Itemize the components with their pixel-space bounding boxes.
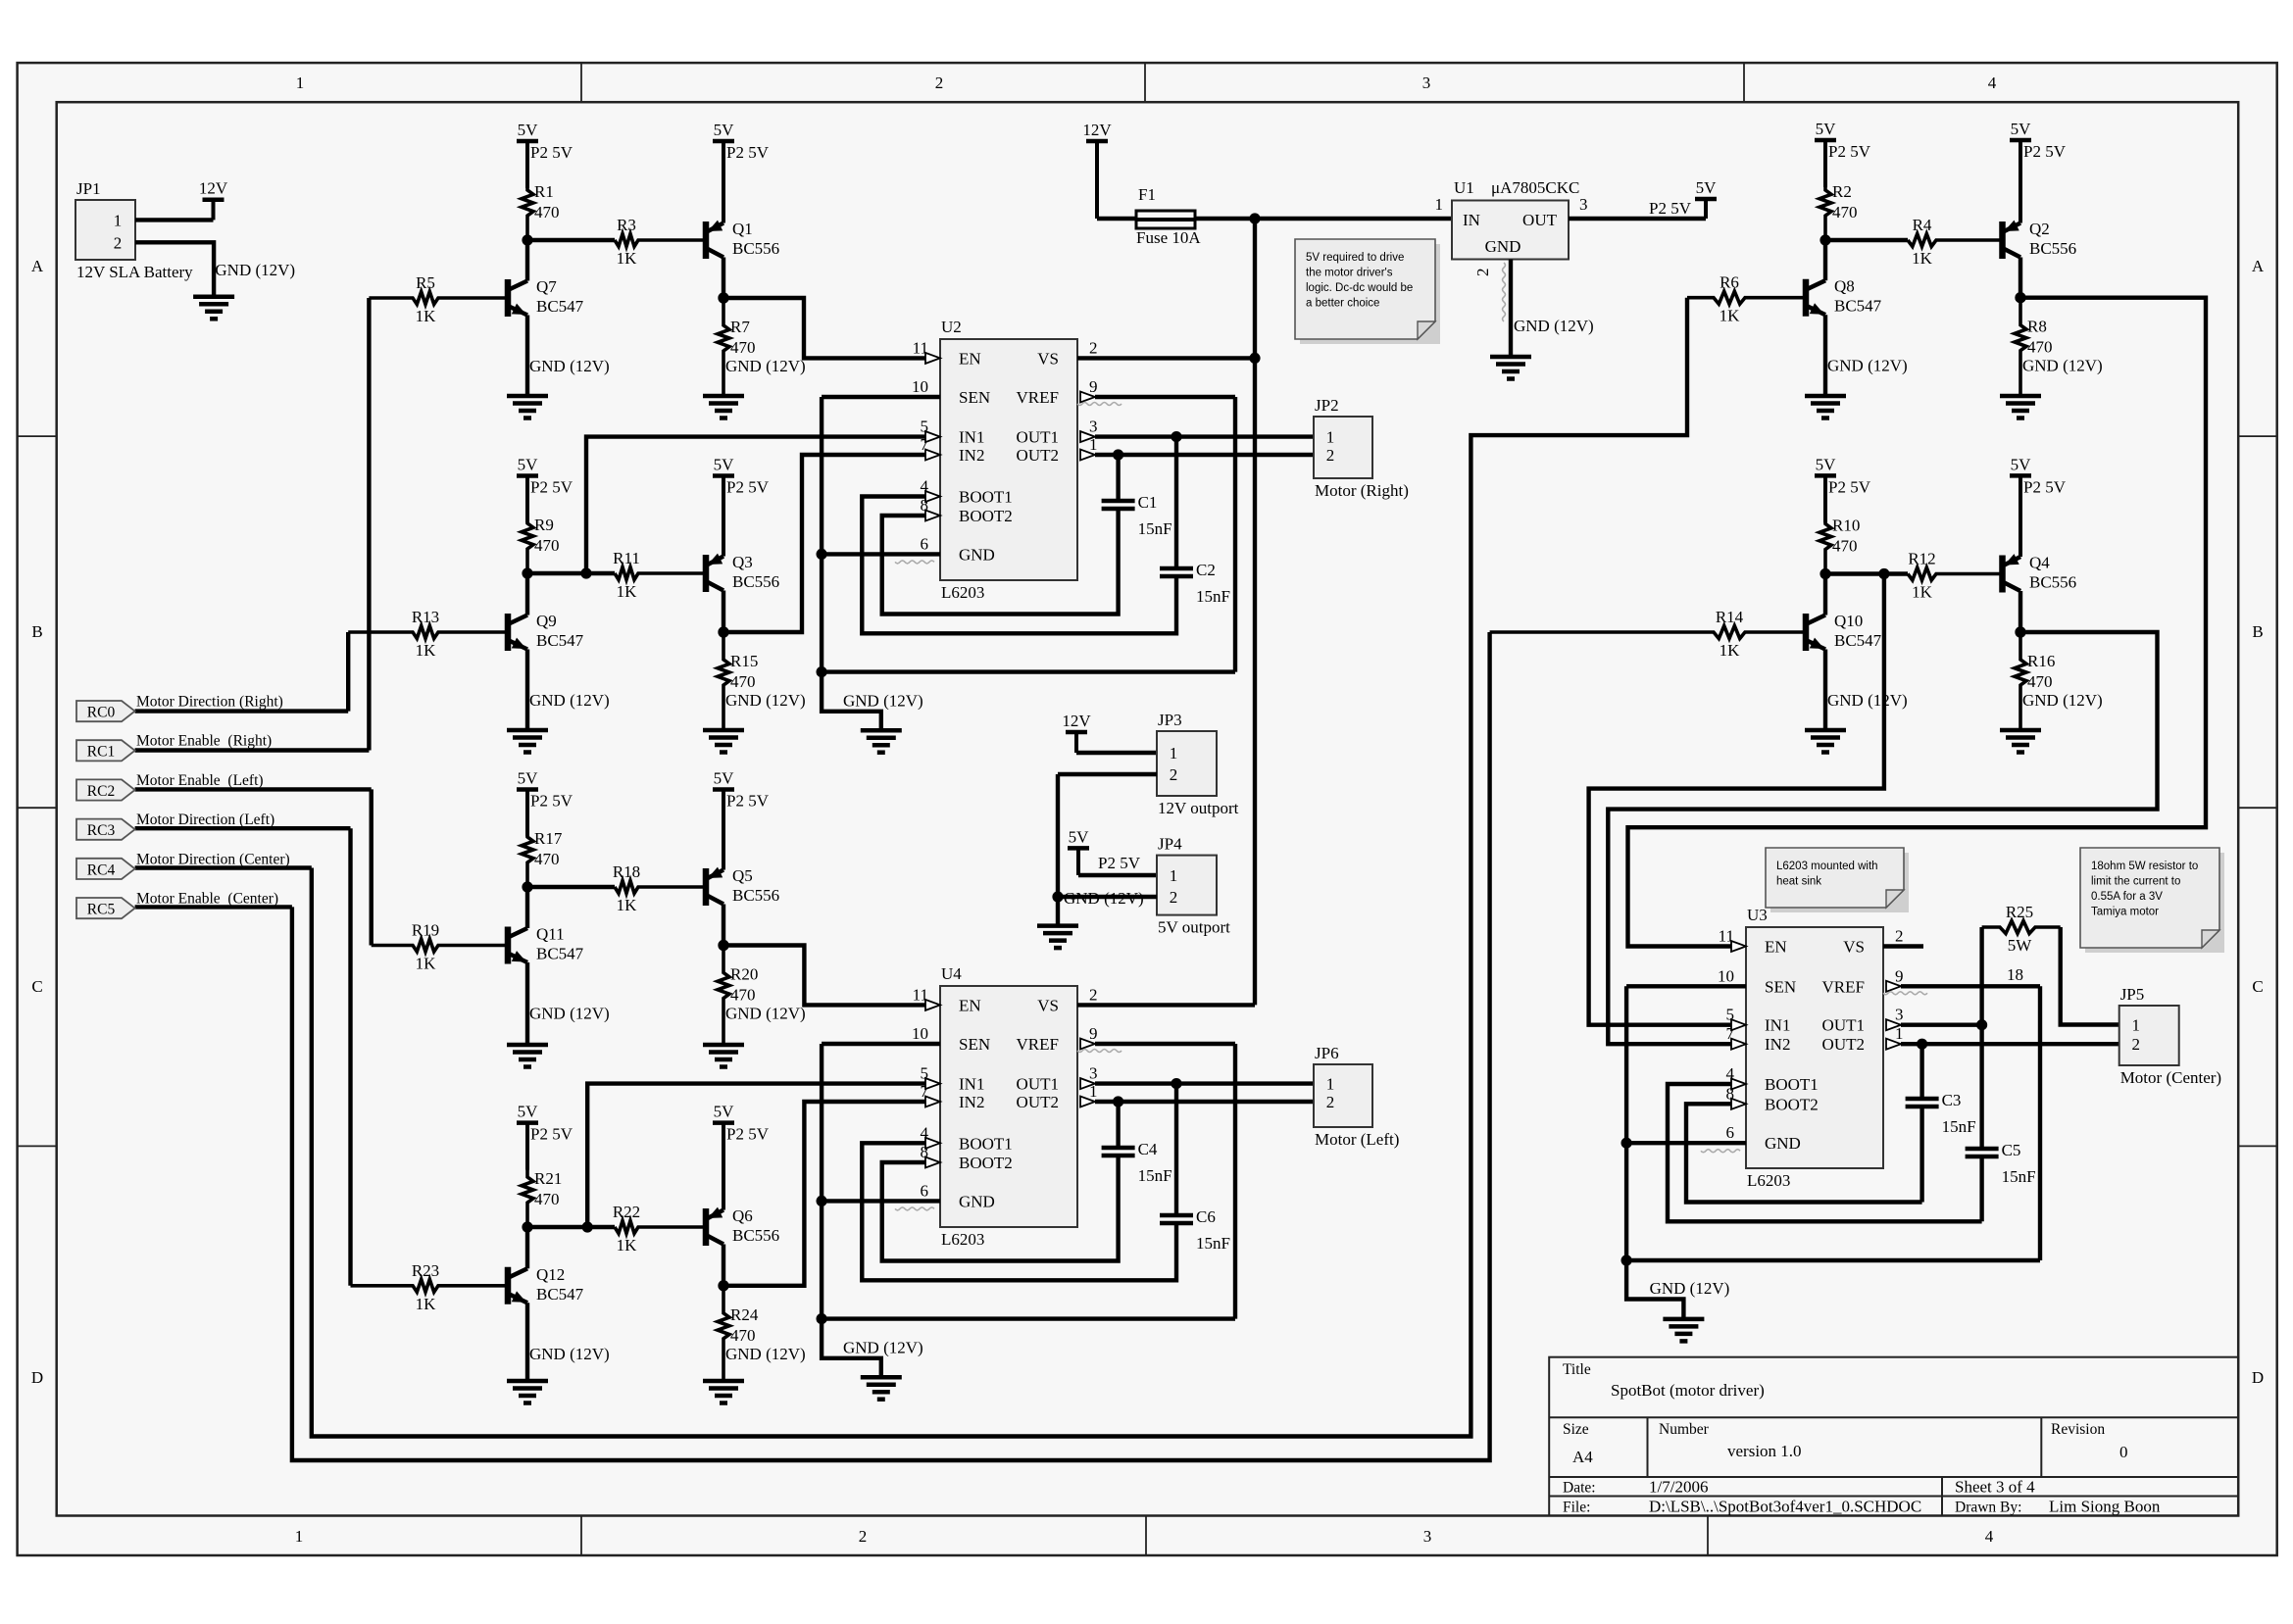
wire JP3 pin2 — [1058, 772, 1157, 776]
ic U3 L6203 — [1701, 906, 1927, 1190]
svg-text:VREF: VREF — [1017, 1035, 1059, 1054]
ground R15 — [703, 730, 744, 753]
svg-text:B: B — [31, 622, 42, 641]
svg-text:470: 470 — [730, 986, 756, 1005]
junction OUT2/C3 — [1917, 1039, 1927, 1050]
svg-text:Date:: Date: — [1563, 1480, 1596, 1497]
svg-text:5V outport: 5V outport — [1158, 918, 1230, 937]
svg-text:Q9: Q9 — [536, 612, 557, 630]
wire U2 VREF return bottom — [822, 669, 1235, 673]
svg-text:OUT2: OUT2 — [1822, 1035, 1865, 1054]
svg-text:BOOT2: BOOT2 — [959, 1154, 1013, 1172]
resistor R24 — [718, 1286, 759, 1381]
svg-text:L6203: L6203 — [1747, 1171, 1790, 1190]
wire Q10 emitter to ground — [1823, 650, 1827, 731]
ground U1 — [1490, 357, 1531, 379]
svg-text:15nF: 15nF — [1138, 1166, 1172, 1185]
svg-text:2: 2 — [1170, 888, 1178, 907]
svg-text:9: 9 — [1089, 1024, 1098, 1043]
svg-text:R24: R24 — [730, 1305, 759, 1324]
svg-text:R11: R11 — [613, 549, 640, 567]
svg-text:R10: R10 — [1832, 517, 1860, 535]
svg-text:BC556: BC556 — [732, 1226, 779, 1245]
ground U4 — [861, 1377, 902, 1400]
svg-text:470: 470 — [1832, 203, 1858, 221]
power 5V rail above R10 — [1815, 455, 1871, 522]
resistor R2 — [1819, 182, 1858, 240]
svg-text:P2 5V: P2 5V — [726, 478, 770, 497]
svg-text:1: 1 — [296, 74, 305, 92]
junction OUT1/C2 — [1171, 431, 1181, 442]
svg-text:1: 1 — [2131, 1016, 2140, 1035]
wire C5 bottom lead — [1979, 1156, 1983, 1221]
wire 12V to fuse F1 — [1097, 217, 1136, 221]
svg-text:Motor Enable (Left): Motor Enable (Left) — [136, 772, 264, 789]
wire R2 junction to R4 — [1825, 238, 1908, 242]
transistor Q4 — [2003, 554, 2077, 593]
svg-text:P2 5V: P2 5V — [726, 143, 770, 162]
svg-text:A: A — [2252, 257, 2265, 275]
svg-text:A4: A4 — [1572, 1448, 1593, 1466]
svg-text:BOOT1: BOOT1 — [1765, 1075, 1819, 1094]
ground R20 — [703, 1045, 744, 1067]
svg-text:U3: U3 — [1747, 906, 1768, 924]
junction IN1 tap — [580, 567, 591, 578]
svg-text:OUT: OUT — [1522, 211, 1558, 229]
svg-text:BOOT2: BOOT2 — [959, 507, 1013, 525]
svg-text:1K: 1K — [416, 955, 437, 973]
resistor R19 — [372, 921, 508, 973]
wire Q8 collector — [1823, 240, 1827, 280]
svg-text:GND (12V): GND (12V) — [843, 1339, 923, 1357]
capacitor C5 — [1966, 1141, 2036, 1186]
wire U4 BOOT1 loop — [862, 1143, 1176, 1280]
svg-text:3: 3 — [1089, 1064, 1098, 1083]
svg-text:1K: 1K — [1912, 249, 1933, 268]
svg-text:R13: R13 — [412, 608, 439, 626]
svg-text:Motor Direction (Right): Motor Direction (Right) — [136, 694, 283, 711]
svg-text:RC5: RC5 — [87, 902, 116, 918]
resistor R14 — [1490, 608, 1806, 660]
svg-text:GND (12V): GND (12V) — [2022, 691, 2103, 710]
connector JP5 Motor (Center) — [2119, 985, 2221, 1087]
svg-text:Revision: Revision — [2051, 1421, 2105, 1438]
junction Q3 emitter/R15/IN2 net — [718, 626, 728, 637]
svg-text:GND (12V): GND (12V) — [725, 357, 806, 375]
ground U2 — [861, 730, 902, 753]
svg-text:5V: 5V — [1069, 827, 1090, 846]
svg-text:BC547: BC547 — [536, 945, 584, 963]
connector JP3 12V outport — [1157, 711, 1239, 817]
junction U4 ground tap — [817, 1313, 827, 1324]
wire Q9 collector — [525, 573, 529, 615]
svg-text:470: 470 — [534, 1190, 560, 1208]
wire U2 VS — [1077, 356, 1255, 360]
svg-text:2: 2 — [1089, 985, 1098, 1004]
svg-text:F1: F1 — [1138, 185, 1156, 204]
svg-text:2: 2 — [1473, 269, 1492, 277]
svg-text:1K: 1K — [416, 307, 437, 325]
port RC5 Motor Enable (Center) — [76, 891, 278, 919]
wire Q5 emitter junction to U4 EN — [723, 946, 925, 1006]
svg-text:P2 5V: P2 5V — [2023, 142, 2067, 161]
wire U2 BOOT1 loop — [862, 497, 1176, 634]
svg-text:5V required to drive: 5V required to drive — [1306, 252, 1404, 264]
wire U4 VS — [1077, 1003, 1255, 1007]
ground JP1 — [193, 297, 234, 320]
svg-text:Tamiya motor: Tamiya motor — [2091, 907, 2159, 918]
svg-text:1K: 1K — [617, 896, 638, 914]
wire U4 BOOT2 loop — [882, 1156, 1119, 1261]
resistor R25 — [1982, 903, 2061, 955]
wire U4 OUT1 to JP6 pin1 — [1095, 1081, 1314, 1085]
svg-text:GND (12V): GND (12V) — [1514, 317, 1594, 335]
svg-text:3: 3 — [1895, 1006, 1904, 1024]
svg-text:15nF: 15nF — [2002, 1167, 2036, 1186]
svg-text:logic. Dc-dc would be: logic. Dc-dc would be — [1306, 282, 1413, 294]
svg-text:Q1: Q1 — [732, 220, 753, 238]
transistor Q2 — [2003, 220, 2077, 259]
power 12V battery — [199, 179, 228, 221]
power 5V rail above Q2 — [2010, 120, 2067, 223]
svg-text:2: 2 — [1326, 446, 1335, 465]
junction OUT2/C1 — [1113, 449, 1123, 460]
svg-text:Q11: Q11 — [536, 925, 565, 944]
svg-text:470: 470 — [2027, 338, 2053, 357]
power 5V rail above R2 — [1815, 120, 1871, 187]
svg-text:9: 9 — [1895, 966, 1904, 985]
transistor Q5 — [706, 866, 779, 906]
resistor R23 — [351, 1261, 509, 1313]
svg-text:GND (12V): GND (12V) — [215, 261, 295, 279]
wire U3 BOOT1 loop — [1668, 1084, 1982, 1221]
svg-text:BC547: BC547 — [536, 631, 584, 650]
svg-text:3: 3 — [1089, 418, 1098, 436]
note R25 current limit — [2080, 848, 2224, 953]
junction R21/R22/Q12 — [522, 1221, 532, 1232]
svg-text:Q2: Q2 — [2029, 220, 2050, 238]
wire RC0 net horizontal — [135, 709, 349, 713]
wire F1 to U1 IN — [1195, 217, 1452, 221]
wire U2 VREF leg — [1233, 397, 1237, 672]
wire Q2 emitter junction to U3 EN — [1628, 298, 2207, 947]
svg-text:GND (12V): GND (12V) — [725, 691, 806, 710]
ground Q10 — [1805, 730, 1846, 753]
svg-text:BOOT2: BOOT2 — [1765, 1095, 1819, 1113]
resistor R3 — [615, 216, 704, 268]
wire RC2 net vertical — [370, 789, 374, 945]
wire U2 ground hook — [822, 672, 881, 731]
svg-text:OUT2: OUT2 — [1017, 446, 1059, 465]
wire Q5 collector — [722, 905, 725, 946]
svg-text:A: A — [31, 257, 44, 275]
transistor Q3 — [706, 553, 779, 592]
svg-text:Motor Enable (Right): Motor Enable (Right) — [136, 733, 272, 750]
connector JP1 12V SLA Battery — [75, 179, 193, 281]
svg-text:P2 5V: P2 5V — [1828, 142, 1871, 161]
svg-text:IN1: IN1 — [1765, 1016, 1790, 1035]
svg-text:Q6: Q6 — [732, 1206, 753, 1225]
svg-text:P2 5V: P2 5V — [530, 792, 573, 811]
wire U3 VREF pin — [1901, 984, 2040, 988]
ground R24 — [703, 1381, 744, 1403]
junction Q5/R20 — [718, 940, 728, 951]
wire Q11 collector — [525, 887, 529, 928]
junction U3 IN1 tap — [1878, 568, 1889, 579]
wire RC3 net vertical — [348, 828, 352, 1286]
svg-text:5V: 5V — [518, 121, 539, 139]
svg-text:2: 2 — [1895, 927, 1904, 946]
wire C2 top lead — [1174, 437, 1178, 568]
svg-text:C: C — [2252, 977, 2263, 996]
svg-text:BC556: BC556 — [732, 572, 779, 591]
svg-text:P2 5V: P2 5V — [726, 1125, 770, 1144]
wire Q1 emitter junction to U2 EN — [723, 298, 925, 358]
svg-text:JP3: JP3 — [1158, 711, 1182, 729]
svg-text:18: 18 — [2007, 965, 2023, 984]
svg-text:3: 3 — [1423, 1527, 1432, 1546]
svg-text:Q7: Q7 — [536, 277, 557, 296]
svg-text:EN: EN — [959, 349, 981, 368]
wire RC2 net horizontal — [135, 787, 372, 791]
svg-text:JP5: JP5 — [2120, 985, 2145, 1004]
wire U4 VREF pin — [1095, 1042, 1235, 1046]
wire U2 SEN strap vertical — [820, 397, 823, 672]
svg-text:1K: 1K — [617, 249, 638, 268]
wire Q3 collector — [722, 591, 725, 633]
svg-text:C1: C1 — [1138, 493, 1158, 512]
svg-text:OUT1: OUT1 — [1017, 428, 1059, 447]
svg-text:12V: 12V — [199, 179, 228, 198]
capacitor C3 — [1906, 1091, 1976, 1136]
junction R10/R12/Q10 — [1819, 568, 1830, 579]
svg-text:Motor (Right): Motor (Right) — [1315, 481, 1409, 500]
wire U3 VREF return bottom — [1626, 1258, 2040, 1262]
svg-text:Q5: Q5 — [732, 866, 753, 885]
svg-text:heat sink: heat sink — [1776, 876, 1821, 888]
wire block2 junction to U2 IN1 — [586, 437, 925, 573]
svg-text:RC0: RC0 — [87, 705, 116, 721]
wire Q9 emitter to ground — [525, 650, 529, 731]
wire Q6 collector — [722, 1245, 725, 1286]
svg-text:GND (12V): GND (12V) — [529, 691, 610, 710]
svg-text:1K: 1K — [617, 582, 638, 601]
svg-text:2: 2 — [1326, 1093, 1335, 1111]
svg-text:5V: 5V — [714, 121, 735, 139]
transistor Q7 — [508, 277, 584, 317]
svg-text:SpotBot (motor driver): SpotBot (motor driver) — [1611, 1381, 1765, 1400]
svg-text:B: B — [2252, 622, 2263, 641]
svg-text:5V: 5V — [1816, 455, 1837, 473]
svg-text:5V: 5V — [518, 1103, 539, 1121]
wire R9 junction to R11 — [527, 571, 615, 575]
svg-text:GND (12V): GND (12V) — [1064, 889, 1144, 908]
svg-text:GND (12V): GND (12V) — [725, 1005, 806, 1023]
svg-text:BOOT1: BOOT1 — [959, 488, 1013, 507]
svg-text:Q12: Q12 — [536, 1265, 565, 1284]
svg-text:a better choice: a better choice — [1306, 298, 1379, 310]
transistor Q8 — [1806, 277, 1882, 317]
ground U3 — [1663, 1319, 1704, 1342]
wire Q11 emitter to ground — [525, 962, 529, 1045]
wire to outport ground — [1056, 897, 1060, 926]
svg-text:5V: 5V — [714, 769, 735, 788]
svg-text:R18: R18 — [613, 862, 640, 881]
resistor R8 — [2015, 298, 2053, 396]
svg-text:R14: R14 — [1716, 608, 1744, 626]
svg-text:1K: 1K — [1720, 307, 1741, 325]
svg-text:BC556: BC556 — [732, 239, 779, 258]
wire Q10 collector — [1823, 574, 1827, 615]
svg-text:3: 3 — [1422, 74, 1431, 92]
svg-text:D:\LSB\..\SpotBot3of4ver1_0.SC: D:\LSB\..\SpotBot3of4ver1_0.SCHDOC — [1649, 1498, 1921, 1516]
svg-text:GND (12V): GND (12V) — [529, 1005, 610, 1023]
wire U3 SEN strap vertical — [1624, 986, 1628, 1260]
junction U4 IN1 tap — [582, 1221, 593, 1232]
svg-text:Motor (Center): Motor (Center) — [2120, 1068, 2221, 1087]
svg-text:SEN: SEN — [959, 1035, 990, 1054]
svg-text:GND (12V): GND (12V) — [529, 1345, 610, 1363]
svg-text:IN1: IN1 — [959, 428, 984, 447]
ground Q12 — [507, 1381, 548, 1403]
svg-text:GND (12V): GND (12V) — [1650, 1279, 1730, 1298]
resistor R9 — [522, 516, 560, 573]
wire U2 GND pin — [822, 552, 940, 556]
wire 5V to JP4 pin1 — [1078, 873, 1157, 877]
wire U2 SEN — [822, 395, 940, 399]
wire U3 VS stub — [1883, 944, 1923, 948]
wire Q2 collector — [2019, 258, 2022, 298]
svg-text:VS: VS — [1037, 349, 1059, 368]
svg-text:IN1: IN1 — [959, 1075, 984, 1094]
title block — [1549, 1357, 2238, 1516]
svg-text:OUT1: OUT1 — [1017, 1075, 1059, 1094]
svg-text:2: 2 — [859, 1527, 868, 1546]
port RC4 Motor Direction (Center) — [76, 851, 290, 879]
resistor R5 — [369, 273, 508, 325]
wire JP3 pin2 down — [1056, 774, 1060, 897]
ground R7 — [703, 396, 744, 418]
wire C5 top lead — [1979, 1025, 1983, 1149]
svg-text:2: 2 — [1170, 765, 1178, 784]
svg-text:R15: R15 — [730, 652, 758, 670]
wire C3 top lead — [1919, 1044, 1923, 1099]
svg-text:P2 5V: P2 5V — [2023, 477, 2067, 496]
svg-text:10: 10 — [912, 377, 928, 396]
resistor R6 — [1687, 273, 1806, 325]
svg-text:Q4: Q4 — [2029, 554, 2050, 572]
svg-text:C5: C5 — [2002, 1141, 2021, 1159]
ic U1 uA7805CKC regulator — [1452, 178, 1579, 260]
wire R25 to JP5 pin1 — [2061, 927, 2119, 1025]
port RC1 Motor Enable (Right) — [76, 733, 272, 762]
resistor R21 — [522, 1168, 562, 1227]
junction Q5 emitter/R20/EN net — [718, 940, 728, 951]
capacitor C6 — [1160, 1207, 1230, 1253]
svg-text:Q10: Q10 — [1834, 612, 1863, 630]
wire R25 left leg — [1979, 927, 1983, 1025]
svg-text:U2: U2 — [941, 318, 962, 336]
junction Q3/R15 — [718, 626, 728, 637]
wire Q8 emitter to ground — [1823, 315, 1827, 396]
svg-text:P2 5V: P2 5V — [530, 143, 573, 162]
svg-text:BC556: BC556 — [2029, 573, 2076, 592]
fuse F1 Fuse 10A — [1136, 185, 1201, 247]
wire JP4 pin2 — [1058, 895, 1157, 899]
svg-text:5V: 5V — [1696, 178, 1718, 197]
svg-text:BC556: BC556 — [732, 886, 779, 905]
svg-text:4: 4 — [1985, 1527, 1994, 1546]
svg-text:2: 2 — [1089, 338, 1098, 357]
svg-text:5V: 5V — [2011, 455, 2032, 473]
junction Q4 emitter/R16/IN2 net — [2015, 626, 2025, 637]
connector JP2 Motor (Right) — [1314, 396, 1409, 500]
svg-text:R8: R8 — [2027, 318, 2047, 336]
svg-text:C4: C4 — [1138, 1140, 1158, 1158]
resistor R22 — [613, 1203, 704, 1255]
wire R1 junction to R3 — [527, 238, 615, 242]
svg-text:OUT2: OUT2 — [1017, 1093, 1059, 1111]
wire JP1 pin1 to 12V — [135, 218, 214, 221]
svg-text:R6: R6 — [1720, 273, 1739, 292]
svg-text:JP4: JP4 — [1158, 835, 1182, 854]
svg-text:R23: R23 — [412, 1261, 439, 1280]
resistor R17 — [522, 829, 563, 887]
resistor R16 — [2015, 632, 2055, 730]
svg-text:R5: R5 — [416, 273, 435, 292]
svg-text:Motor Enable (Center): Motor Enable (Center) — [136, 891, 278, 908]
junction R1/R3/Q7 — [522, 234, 532, 245]
wire R10 junction to R12 — [1825, 571, 1908, 575]
svg-text:6: 6 — [921, 534, 929, 553]
ground R8 — [2000, 396, 2041, 418]
svg-text:RC4: RC4 — [87, 861, 116, 878]
svg-text:12V SLA Battery: 12V SLA Battery — [76, 263, 193, 281]
note 5V regulator comment — [1295, 239, 1440, 344]
junction U4 GND pin tap — [817, 1196, 827, 1206]
wire RC1 net vertical — [367, 298, 371, 751]
svg-text:1K: 1K — [617, 1236, 638, 1255]
svg-text:5V: 5V — [2011, 120, 2032, 138]
transistor Q10 — [1806, 612, 1882, 651]
wire R21 junction to R22 — [527, 1225, 615, 1229]
svg-text:R12: R12 — [1908, 550, 1935, 568]
resistor R11 — [613, 549, 704, 601]
wire Q7 collector — [525, 240, 529, 281]
capacitor C4 — [1102, 1140, 1172, 1185]
svg-text:C: C — [31, 977, 42, 996]
svg-text:P2 5V: P2 5V — [530, 1125, 573, 1144]
ground Q8 — [1805, 396, 1846, 418]
junction U3 GND pin tap — [1621, 1138, 1632, 1149]
svg-text:470: 470 — [1832, 537, 1858, 556]
svg-text:RC2: RC2 — [87, 783, 115, 800]
svg-text:SEN: SEN — [959, 388, 990, 407]
svg-text:version 1.0: version 1.0 — [1727, 1442, 1802, 1460]
resistor R10 — [1819, 517, 1860, 574]
svg-text:GND (12V): GND (12V) — [843, 692, 923, 711]
svg-text:470: 470 — [534, 203, 560, 221]
svg-text:R1: R1 — [534, 182, 554, 201]
svg-text:GND: GND — [959, 545, 995, 564]
svg-text:VREF: VREF — [1017, 388, 1059, 407]
power 5V rail above Q5 — [713, 769, 770, 870]
transistor Q9 — [508, 612, 584, 651]
power 5V rail above R17 — [517, 769, 573, 837]
wire U3 GND pin — [1626, 1141, 1746, 1145]
connector JP4 5V outport — [1157, 835, 1230, 937]
svg-text:4: 4 — [1988, 74, 1997, 92]
